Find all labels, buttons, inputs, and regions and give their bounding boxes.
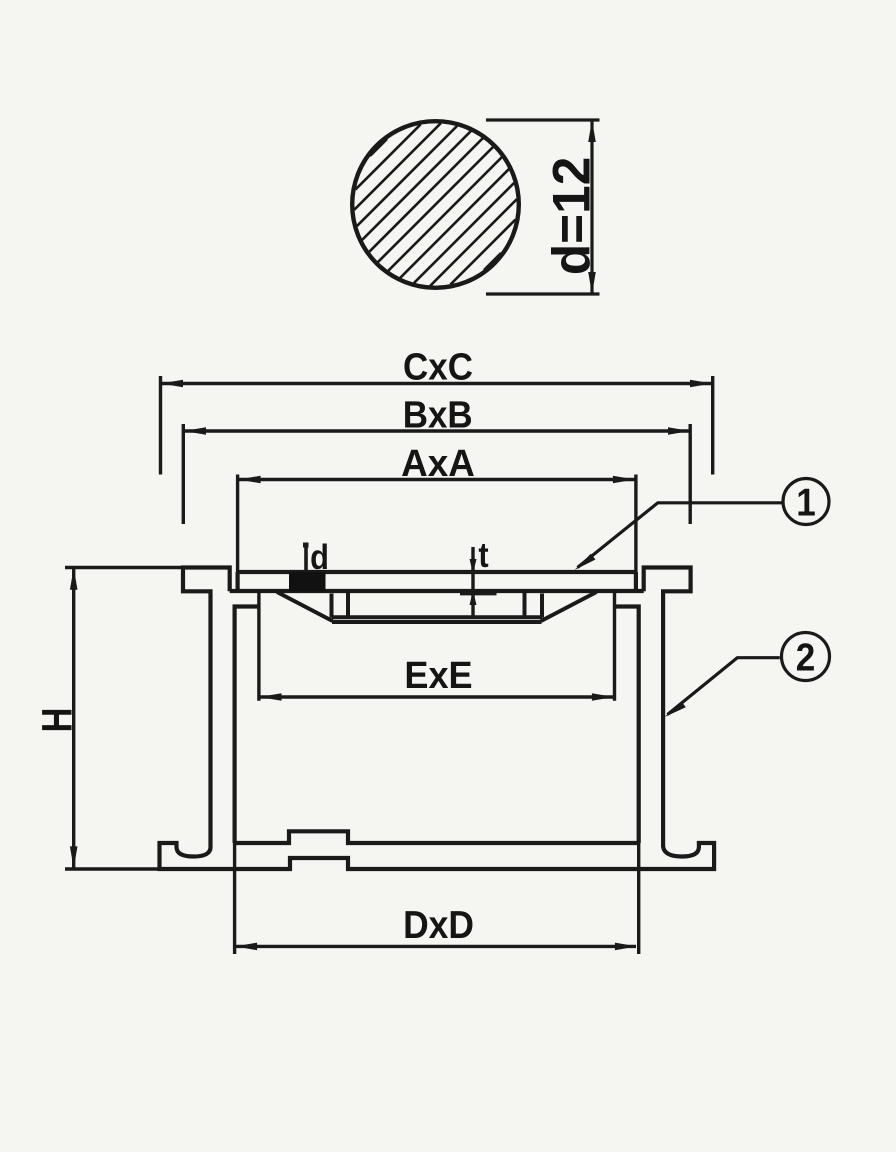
- svg-text:CxC: CxC: [403, 345, 473, 388]
- frame outer profile (item 2): flanges, walls, feet: [160, 568, 715, 870]
- dimension ExE: [259, 591, 615, 701]
- dimension BxB: [183, 424, 690, 524]
- svg-text:H: H: [34, 708, 81, 733]
- svg-text:2: 2: [796, 635, 816, 679]
- dimension CxC: [161, 376, 713, 475]
- svg-text:d: d: [310, 537, 329, 576]
- svg-text:DxD: DxD: [403, 904, 474, 947]
- hatched round bar section (d=12): [352, 121, 519, 288]
- callout 2 (frame): [668, 633, 830, 715]
- dimension DxD: [235, 843, 639, 954]
- callout 1 (cover): [578, 479, 830, 568]
- frame bottom plate top surface with stamped rib: [235, 831, 639, 843]
- dimension d=12: [486, 120, 600, 294]
- cover reinforcing pan under plate: [277, 592, 597, 622]
- gasket (black) in cover plate: [289, 572, 326, 592]
- dimension AxA: [238, 475, 636, 573]
- frame left seat lip and inner wall face: [235, 607, 259, 844]
- svg-text:t: t: [478, 535, 488, 574]
- svg-text:d=12: d=12: [543, 157, 602, 276]
- svg-text:BxB: BxB: [403, 393, 473, 436]
- cover (item 1) top plate: [230, 572, 644, 591]
- svg-text:ExE: ExE: [404, 653, 472, 696]
- dimension H: [65, 568, 183, 870]
- label d with leader to gasket: [303, 543, 309, 548]
- svg-text:AxA: AxA: [401, 441, 475, 484]
- svg-text:1: 1: [796, 480, 816, 524]
- frame right seat lip and inner wall face: [615, 607, 639, 844]
